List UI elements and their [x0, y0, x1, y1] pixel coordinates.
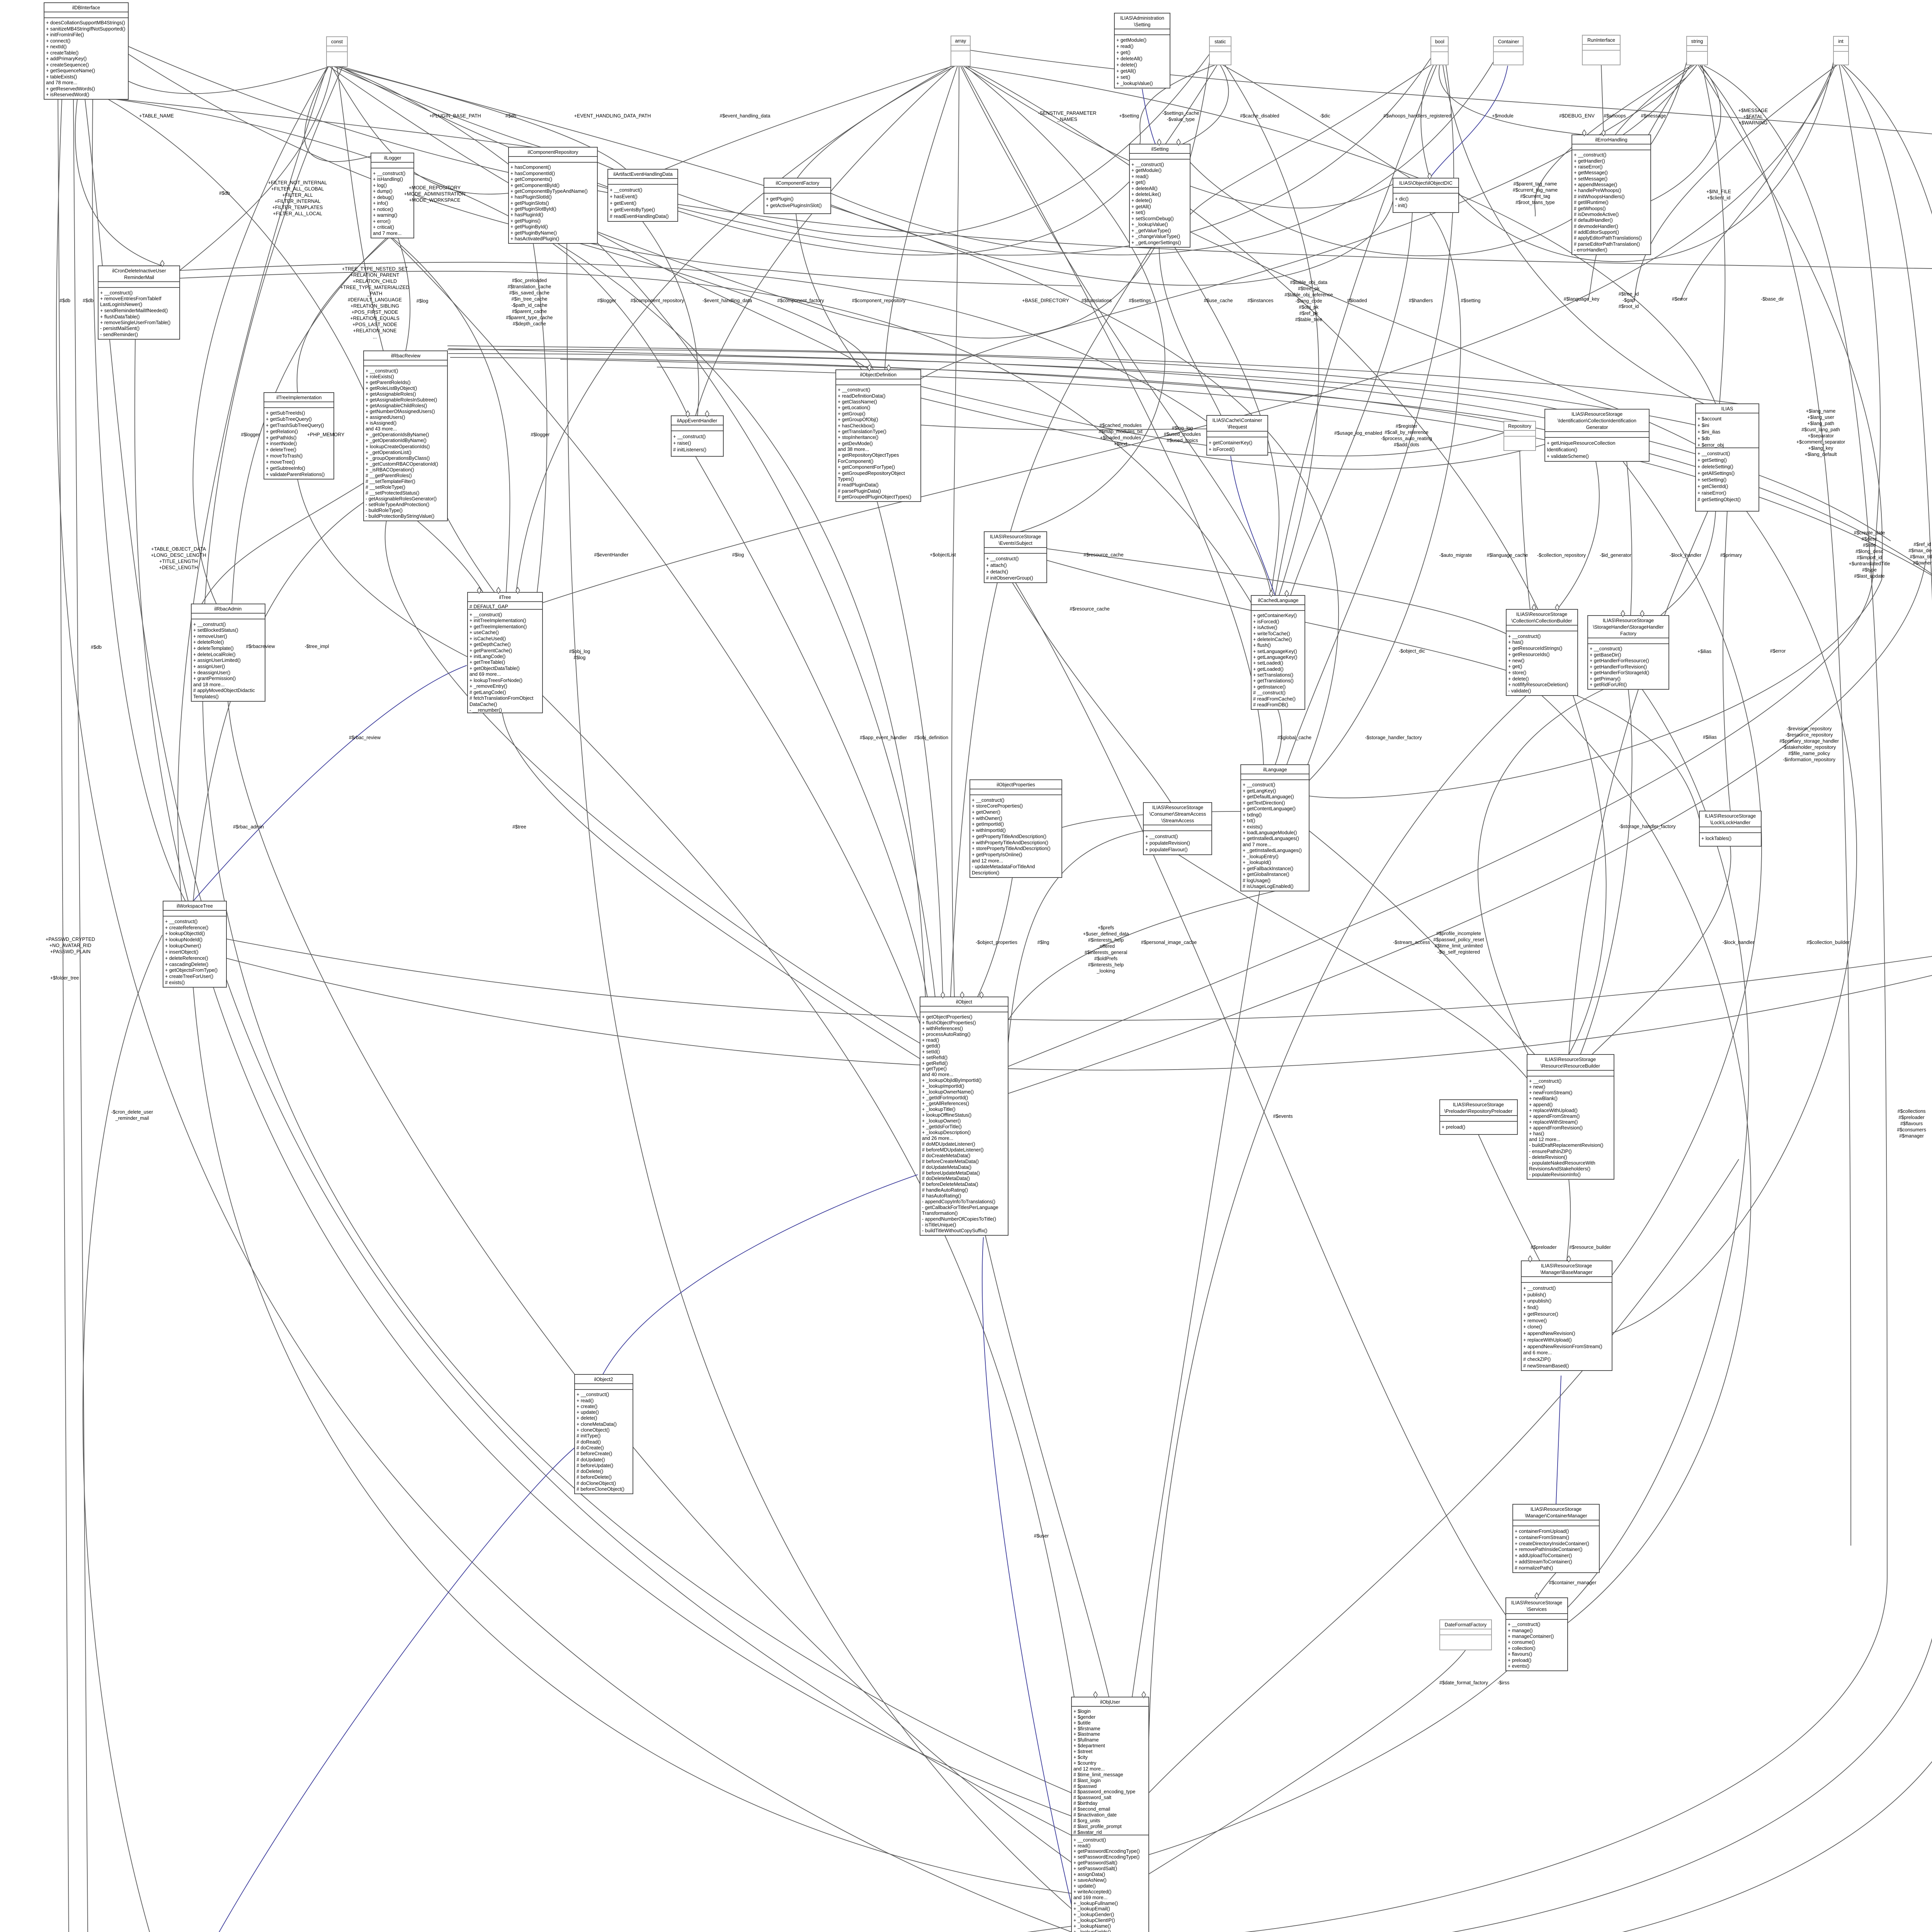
svg-text:+ preload(): + preload(): [1508, 1658, 1531, 1663]
svg-text:+ useCache(): + useCache(): [469, 630, 499, 635]
svg-text:#$app_event_handler: #$app_event_handler: [860, 735, 907, 740]
svg-text:#$loaded: #$loaded: [1347, 298, 1367, 303]
svg-text:+ _lookupId(): + _lookupId(): [1243, 860, 1271, 865]
svg-text:and 12 more...: and 12 more...: [1529, 1137, 1560, 1142]
svg-text:+ delete(): + delete(): [1131, 198, 1152, 203]
svg-text:Types(): Types(): [838, 476, 854, 482]
svg-text:+ __construct(): + __construct(): [1508, 1622, 1540, 1627]
svg-text:#$interests_general: #$interests_general: [1085, 950, 1128, 955]
svg-text:+ getModule(): + getModule(): [1116, 37, 1146, 43]
svg-text:+ getNumberOfAssignedUsers(): + getNumberOfAssignedUsers(): [366, 409, 435, 414]
svg-text:+ dic(): + dic(): [1395, 196, 1408, 202]
svg-text:+ getObjectDataTable(): + getObjectDataTable(): [469, 666, 520, 671]
svg-text:#$error: #$error: [1672, 296, 1688, 302]
class AdminSetting: [1114, 13, 1170, 88]
svg-text:#$logger: #$logger: [531, 432, 549, 437]
svg-text:+NO_AVATAR_RID: +NO_AVATAR_RID: [49, 943, 92, 948]
svg-text:+ getActivePluginsInSlot(): + getActivePluginsInSlot(): [766, 203, 822, 208]
svg-text:ILIAS\ResourceStorage: ILIAS\ResourceStorage: [1705, 813, 1756, 819]
svg-text:+ unpublish(): + unpublish(): [1523, 1298, 1551, 1304]
svg-text:+ _lookupValue(): + _lookupValue(): [1116, 81, 1153, 86]
svg-text:+ deleteTree(): + deleteTree(): [266, 447, 296, 452]
svg-text:#$long_desc: #$long_desc: [1855, 549, 1883, 554]
svg-text:# $inactivation_date: # $inactivation_date: [1073, 1812, 1117, 1818]
wire: [128, 66, 330, 94]
svg-text:# isUsageLogEnabled(): # isUsageLogEnabled(): [1243, 884, 1294, 889]
svg-text:#$consumers: #$consumers: [1897, 1127, 1926, 1133]
svg-text:+ getComponents(): + getComponents(): [510, 177, 552, 182]
svg-text:# doCloneObject(): # doCloneObject(): [577, 1481, 616, 1486]
svg-text:+ containerFromStream(): + containerFromStream(): [1515, 1535, 1569, 1540]
svg-text:#$file_name_policy: #$file_name_policy: [1788, 751, 1830, 756]
svg-text:+ getTreeImplementation(): + getTreeImplementation(): [469, 624, 527, 629]
svg-text:+ warning(): + warning(): [373, 213, 397, 218]
svg-text:+ getRoleListByObject(): + getRoleListByObject(): [366, 386, 417, 391]
class ilRbacReview: [364, 351, 447, 521]
svg-text:# $passwd: # $passwd: [1073, 1784, 1097, 1789]
svg-text:#$log: #$log: [732, 552, 744, 558]
class array: [951, 36, 970, 66]
svg-text:+ $fullname: + $fullname: [1073, 1737, 1099, 1743]
svg-text:+ _getOperationIdByName(): + _getOperationIdByName(): [366, 438, 427, 443]
svg-text:+ getPasswordSalt(): + getPasswordSalt(): [1073, 1860, 1117, 1866]
svg-text:+MODE_WORKSPACE: +MODE_WORKSPACE: [409, 197, 460, 203]
svg-text:+ info(): + info(): [373, 201, 388, 206]
svg-text:-$collection_repository: -$collection_repository: [1537, 553, 1586, 558]
svg-text:#$component_repository: #$component_repository: [852, 298, 906, 303]
svg-text:# getWhoops(): # getWhoops(): [1574, 206, 1606, 211]
svg-text:and 7 more...: and 7 more...: [373, 231, 401, 236]
svg-text:+POS_FIRST_NODE: +POS_FIRST_NODE: [352, 310, 398, 315]
svg-text:+ raise(): + raise(): [673, 440, 691, 446]
svg-text:+ handlePreWhoops(): + handlePreWhoops(): [1574, 188, 1621, 193]
class ilDBInterface: [44, 3, 128, 99]
svg-text:+ read(): + read(): [922, 1037, 939, 1043]
svg-text:-SENSTIVE_PARAMETER: -SENSTIVE_PARAMETER: [1038, 111, 1097, 116]
svg-text:+ events(): + events(): [1508, 1663, 1529, 1669]
svg-text:+RELATION_NONE: +RELATION_NONE: [353, 328, 397, 333]
svg-text:#$language_key: #$language_key: [1564, 296, 1600, 302]
svg-text:# exists(): # exists(): [165, 980, 185, 985]
svg-text:+ __construct(): + __construct(): [366, 368, 398, 374]
svg-text:ilTreeImplementation: ilTreeImplementation: [276, 395, 321, 400]
svg-text:# initType(): # initType(): [577, 1433, 600, 1439]
svg-text:+ debug(): + debug(): [373, 195, 394, 200]
svg-text:+ getLanguageKey(): + getLanguageKey(): [1253, 655, 1297, 660]
class ilSetting: [1129, 144, 1190, 247]
svg-text:+ _lookupTitle(): + _lookupTitle(): [922, 1107, 956, 1112]
svg-text:\Events\Subject: \Events\Subject: [998, 541, 1032, 546]
svg-text:+ removeUser(): + removeUser(): [193, 634, 227, 639]
svg-text:# beforeUpdateMetaData(): # beforeUpdateMetaData(): [922, 1170, 980, 1176]
svg-text:+ error(): + error(): [373, 219, 391, 224]
svg-text:#$language_cache: #$language_cache: [1487, 553, 1528, 558]
svg-text:+ _lookupDescription(): + _lookupDescription(): [922, 1130, 971, 1135]
svg-text:+ __construct(): + __construct(): [165, 919, 197, 924]
svg-text:#$import_id: #$import_id: [1857, 555, 1882, 560]
svg-text:# devmodeHandler(): # devmodeHandler(): [1574, 224, 1618, 229]
svg-text:+ getLocation(): + getLocation(): [838, 405, 870, 410]
svg-text:+ deleteTemplate(): + deleteTemplate(): [193, 646, 234, 651]
svg-text:#$time_limit_unlimited: #$time_limit_unlimited: [1435, 943, 1483, 949]
svg-text:+ appendFromStream(): + appendFromStream(): [1529, 1114, 1580, 1119]
svg-text:+ roleExists(): + roleExists(): [366, 374, 394, 379]
svg-text:and 43 more...: and 43 more...: [366, 426, 397, 432]
svg-text:ilDBInterface: ilDBInterface: [72, 5, 100, 10]
svg-text:+ __construct(): + __construct(): [986, 556, 1019, 561]
svg-text:LastLoginIsNewer(): LastLoginIsNewer(): [100, 302, 142, 307]
svg-text:+ _lookupGender(): + _lookupGender(): [1073, 1912, 1114, 1917]
svg-text:and 38 more...: and 38 more...: [838, 447, 869, 452]
class ilTree: [468, 592, 543, 713]
svg-text:ilObjUser: ilObjUser: [1100, 1699, 1120, 1705]
svg-text:+ flavours(): + flavours(): [1508, 1651, 1532, 1657]
svg-text:#$logger: #$logger: [241, 432, 260, 437]
svg-text:+ newFromStream(): + newFromStream(): [1529, 1090, 1572, 1095]
svg-text:+ getPlugins(): + getPlugins(): [510, 218, 541, 224]
svg-text:-$lock_handler: -$lock_handler: [1723, 940, 1755, 945]
svg-text:#$tree_pk: #$tree_pk: [1298, 286, 1320, 291]
svg-text:ILIAS\ResourceStorage: ILIAS\ResourceStorage: [1541, 1263, 1592, 1269]
svg-text:+DESC_LENGTH: +DESC_LENGTH: [159, 565, 198, 570]
svg-text:+ getType(): + getType(): [922, 1066, 947, 1071]
svg-text:+ _lookupEntry(): + _lookupEntry(): [1243, 854, 1279, 859]
svg-text:+ setPasswordSalt(): + setPasswordSalt(): [1073, 1866, 1117, 1871]
svg-text:+ _lookupImportId(): + _lookupImportId(): [922, 1083, 964, 1089]
svg-text:+ find(): + find(): [1523, 1305, 1539, 1310]
svg-text:+ createTreeForUser(): + createTreeForUser(): [165, 974, 213, 979]
svg-text:+ __construct(): + __construct(): [610, 187, 642, 193]
svg-text:+ getPluginSlotById(): + getPluginSlotById(): [510, 206, 556, 212]
svg-text:-$storage_handler_factory: -$storage_handler_factory: [1619, 824, 1676, 829]
svg-text:+ getContainerKey(): + getContainerKey(): [1209, 440, 1252, 446]
svg-text:+ getPrimary(): + getPrimary(): [1590, 676, 1621, 682]
svg-text:# initObserverGroup(): # initObserverGroup(): [986, 575, 1033, 581]
svg-text:#$parent_cache: #$parent_cache: [512, 309, 547, 314]
svg-text:ILIAS\ResourceStorage: ILIAS\ResourceStorage: [1531, 1507, 1582, 1512]
svg-text:# hasAutoRating(): # hasAutoRating(): [922, 1193, 961, 1199]
svg-text:#$cache_disabled: #$cache_disabled: [1240, 113, 1279, 119]
svg-text:+ getTrashSubTreeQuery(): + getTrashSubTreeQuery(): [266, 423, 324, 428]
svg-text:+ $lastname: + $lastname: [1073, 1731, 1100, 1737]
svg-text:+$prefs: +$prefs: [1098, 925, 1114, 930]
svg-text:# checkZIP(): # checkZIP(): [1523, 1357, 1551, 1362]
svg-text:-$is_self_registered: -$is_self_registered: [1437, 949, 1480, 955]
svg-text:- buildTitleWithoutCopySuffix(: - buildTitleWithoutCopySuffix(): [922, 1228, 987, 1233]
svg-text:+ dump(): + dump(): [373, 189, 393, 194]
svg-text:+ getMessage(): + getMessage(): [1574, 170, 1608, 175]
svg-text:# addEditorSupport(): # addEditorSupport(): [1574, 230, 1619, 235]
svg-text:-$stream_access: -$stream_access: [1393, 940, 1430, 945]
svg-text:+$separator: +$separator: [1808, 433, 1834, 439]
svg-text:-$dic: -$dic: [1320, 113, 1330, 119]
svg-text:#$translations: #$translations: [1082, 298, 1112, 303]
svg-text:+EVENT_HANDLING_DATA_PATH: +EVENT_HANDLING_DATA_PATH: [574, 113, 651, 119]
svg-text:+ lookupOfflineStatus(): + lookupOfflineStatus(): [922, 1112, 971, 1118]
svg-text:#$is_saved_cache: #$is_saved_cache: [509, 290, 549, 296]
svg-text:+ __construct(): + __construct(): [1073, 1837, 1106, 1843]
svg-text:#$add_dots: #$add_dots: [1394, 442, 1419, 447]
svg-text:+ exists(): + exists(): [1243, 824, 1262, 830]
svg-text:#$logger: #$logger: [597, 298, 616, 303]
svg-text:+ lookupNodeId(): + lookupNodeId(): [165, 937, 202, 942]
svg-text:#$manager: #$manager: [1899, 1133, 1924, 1139]
svg-text:+ appendMessage(): + appendMessage(): [1574, 182, 1617, 187]
svg-text:+ lookupTreesForNode(): + lookupTreesForNode(): [469, 678, 522, 683]
svg-text:+ __construct(): + __construct(): [1145, 834, 1178, 839]
svg-text:# $password_encoding_type: # $password_encoding_type: [1073, 1789, 1135, 1794]
svg-text:# doCreate(): # doCreate(): [577, 1445, 604, 1451]
svg-text:+ createReference(): + createReference(): [165, 925, 208, 930]
svg-text:+$comment_separator: +$comment_separator: [1796, 439, 1845, 445]
svg-text:+ delete(): + delete(): [577, 1415, 597, 1421]
svg-text:_looking: _looking: [1097, 968, 1115, 974]
svg-text:and 78 more...: and 78 more...: [46, 80, 77, 85]
class Subject: [984, 532, 1047, 583]
svg-text:ilCachedLanguage: ilCachedLanguage: [1258, 598, 1298, 603]
svg-text:+ initFromIniFile(): + initFromIniFile(): [46, 32, 84, 37]
svg-text:#$current_tag_name: #$current_tag_name: [1513, 187, 1558, 193]
svg-text:+ populateRevision(): + populateRevision(): [1145, 840, 1190, 846]
svg-text:+ moveTree(): + moveTree(): [266, 459, 295, 465]
svg-text:+ getPluginById(): + getPluginById(): [510, 224, 548, 230]
svg-text:+ grantPermission(): + grantPermission(): [193, 676, 236, 681]
svg-text:+ _getInstalledLanguages(): + _getInstalledLanguages(): [1243, 848, 1302, 853]
svg-text:+ getContentLanguage(): + getContentLanguage(): [1243, 806, 1296, 811]
svg-text:+ getDepthCache(): + getDepthCache(): [469, 642, 511, 647]
svg-text:- persistMailSent(): - persistMailSent(): [100, 326, 139, 331]
node anchors: [160, 130, 1644, 1932]
svg-text:+ _groupOperationsByClass(): + _groupOperationsByClass(): [366, 456, 430, 461]
svg-text:+ getTextDirection(): + getTextDirection(): [1243, 800, 1285, 806]
svg-text:# handleAutoRating(): # handleAutoRating(): [922, 1187, 968, 1193]
svg-text:+$folder_tree: +$folder_tree: [50, 975, 79, 981]
svg-text:ilErrorHandling: ilErrorHandling: [1595, 137, 1627, 143]
class DateFormatFactory: [1440, 1620, 1492, 1650]
svg-text:#$obj_definition: #$obj_definition: [914, 735, 948, 740]
svg-text:+TABLE_OBJECT_DATA: +TABLE_OBJECT_DATA: [151, 546, 206, 552]
svg-text:-$stakeholder_repository: -$stakeholder_repository: [1782, 745, 1836, 750]
svg-text:#$obj_pk: #$obj_pk: [1299, 304, 1319, 310]
svg-text:+ hasActivatedPlugin(): + hasActivatedPlugin(): [510, 236, 559, 241]
svg-text:+ setLoaded(): + setLoaded(): [1253, 660, 1283, 666]
class ilObject: [920, 997, 1008, 1235]
svg-text:#$root_trans_type: #$root_trans_type: [1515, 200, 1555, 205]
svg-text:#$resource_builder: #$resource_builder: [1569, 1245, 1611, 1250]
svg-text:+$lang_path: +$lang_path: [1807, 421, 1834, 426]
svg-text:+ insertObject(): + insertObject(): [165, 949, 198, 955]
svg-text:-$process_auto_reating: -$process_auto_reating: [1381, 436, 1432, 441]
svg-text:-$information_repository: -$information_repository: [1783, 757, 1835, 762]
svg-text:- appendCopyInfoToTranslations: - appendCopyInfoToTranslations(): [922, 1199, 995, 1204]
svg-text:+ getPluginSlots(): + getPluginSlots(): [510, 201, 549, 206]
svg-text:#$root_id: #$root_id: [1619, 304, 1639, 309]
class ilLogger: [371, 153, 414, 238]
svg-text:+ log(): + log(): [373, 183, 387, 188]
svg-text:# __setRoleType(): # __setRoleType(): [366, 485, 405, 490]
svg-text:# getLangCode(): # getLangCode(): [469, 690, 506, 695]
svg-text:_NAMES: _NAMES: [1057, 117, 1077, 122]
svg-text:+ addPrimaryKey(): + addPrimaryKey(): [46, 56, 87, 61]
svg-text:+ getParentCache(): + getParentCache(): [469, 648, 512, 653]
svg-text:ilLogger: ilLogger: [384, 155, 401, 161]
svg-text:+ __construct(): + __construct(): [373, 171, 405, 176]
svg-text:#$rbac_admin: #$rbac_admin: [233, 824, 264, 830]
svg-text:and 6 more...: and 6 more...: [1523, 1350, 1552, 1355]
svg-text:#$used_modules: #$used_modules: [1164, 432, 1201, 437]
svg-text:- buildProtectionByStringValue: - buildProtectionByStringValue(): [366, 514, 434, 519]
svg-text:\Manager\ContainerManager: \Manager\ContainerManager: [1525, 1513, 1587, 1519]
svg-text:- populateNakedResourceWith: - populateNakedResourceWith: [1529, 1160, 1595, 1166]
svg-text:+ _isRBACOperation(): + _isRBACOperation(): [366, 467, 414, 473]
svg-text:+ getRidForURI(): + getRidForURI(): [1590, 682, 1627, 687]
svg-text:+$untranslatedTitle: +$untranslatedTitle: [1849, 561, 1890, 566]
svg-text:+ getId(): + getId(): [922, 1043, 940, 1049]
svg-text:+ getSetting(): + getSetting(): [1697, 457, 1727, 463]
class ilAppEventHandler: [671, 416, 723, 456]
svg-text:+$WARNING: +$WARNING: [1739, 120, 1768, 126]
svg-text:Generator: Generator: [1586, 425, 1608, 430]
svg-text:#$used_topics: #$used_topics: [1167, 438, 1198, 443]
svg-text:+ _changeValueType(): + _changeValueType(): [1131, 234, 1180, 239]
class const: [327, 37, 347, 66]
svg-text:#$max_desc: #$max_desc: [1908, 548, 1932, 553]
svg-text:+ getInstalledLanguages(): + getInstalledLanguages(): [1243, 836, 1299, 841]
svg-text:+ _lookupClientIP(): + _lookupClientIP(): [1073, 1918, 1115, 1923]
svg-text:+ getPropertyIsOnline(): + getPropertyIsOnline(): [972, 852, 1022, 857]
svg-text:+RELATION_PARENT: +RELATION_PARENT: [350, 272, 400, 278]
svg-text:+ critical(): + critical(): [373, 224, 394, 230]
svg-text:ILIAS\Administration: ILIAS\Administration: [1120, 15, 1164, 21]
svg-text:+ getComponentByTypeAndName(): + getComponentByTypeAndName(): [510, 189, 588, 194]
svg-text:#$primary_storage_handler: #$primary_storage_handler: [1779, 738, 1839, 744]
svg-text:+$lang_key: +$lang_key: [1808, 446, 1833, 451]
class ilArtifactEventHandlingData: [608, 169, 678, 221]
svg-text:#$db: #$db: [60, 298, 70, 303]
svg-text:#$rbacreview: #$rbacreview: [246, 644, 276, 649]
svg-text:#$usage_log_enabled: #$usage_log_enabled: [1334, 430, 1382, 436]
svg-text:+ deleteLike(): + deleteLike(): [1131, 192, 1161, 197]
svg-text:+ read(): + read(): [1131, 174, 1148, 179]
svg-text:#$events: #$events: [1273, 1114, 1293, 1119]
svg-text:ILIAS\ResourceStorage: ILIAS\ResourceStorage: [1603, 618, 1654, 623]
svg-text:+ setScormDebug(): + setScormDebug(): [1131, 216, 1174, 221]
svg-text:-$lock_handler: -$lock_handler: [1670, 553, 1702, 558]
svg-text:+ _lookupOwner(): + _lookupOwner(): [922, 1118, 961, 1124]
svg-text:+ update(): + update(): [1073, 1883, 1096, 1889]
svg-text:+ getInstance(): + getInstance(): [1253, 684, 1286, 690]
svg-text:ilComponentRepository: ilComponentRepository: [528, 150, 579, 155]
svg-text:- __renumber(): - __renumber(): [469, 707, 502, 713]
svg-text:- buildRoleType(): - buildRoleType(): [366, 508, 403, 513]
svg-text:- sendReminder(): - sendReminder(): [100, 332, 138, 337]
svg-text:+TREE_TYPE_MATERIALIZED: +TREE_TYPE_MATERIALIZED: [340, 285, 410, 290]
class ilLanguage: [1241, 765, 1309, 891]
svg-text:+ cloneObject(): + cloneObject(): [577, 1427, 610, 1433]
svg-text:# normalizePath(): # normalizePath(): [1515, 1565, 1553, 1571]
svg-text:+ __construct(): + __construct(): [193, 622, 226, 627]
svg-text:+ insertNode(): + insertNode(): [266, 441, 297, 446]
svg-text:+ initTreeImplementation(): + initTreeImplementation(): [469, 618, 526, 623]
class ilErrorHandling: [1572, 135, 1651, 255]
svg-text:+ getComponentForType(): + getComponentForType(): [838, 464, 895, 470]
svg-text:+ $city: + $city: [1073, 1755, 1088, 1760]
svg-text:ilSetting: ilSetting: [1151, 146, 1169, 152]
svg-text:+ getRelation(): + getRelation(): [266, 429, 298, 434]
svg-text:+ deleteReference(): + deleteReference(): [165, 956, 208, 961]
svg-text:+ delete(): + delete(): [1508, 676, 1529, 682]
svg-text:+ getEvent(): + getEvent(): [610, 201, 636, 206]
svg-text:#$tree: #$tree: [512, 824, 526, 830]
svg-text:array: array: [955, 38, 966, 44]
svg-text:+ __construct(): + __construct(): [1508, 634, 1541, 639]
svg-text:+ getParentRoleIds(): + getParentRoleIds(): [366, 380, 411, 385]
svg-text:+ getHandler(): + getHandler(): [1574, 158, 1605, 164]
svg-text:#$interests_help: #$interests_help: [1088, 937, 1124, 943]
svg-text:+ removeSingleUserFromTable(): + removeSingleUserFromTable(): [100, 320, 170, 325]
svg-text:+ hasPluginSlotId(): + hasPluginSlotId(): [510, 194, 552, 200]
svg-text:-$id_generator: -$id_generator: [1600, 553, 1631, 558]
svg-text:#$log: #$log: [417, 298, 429, 304]
svg-text:+ consume(): + consume(): [1508, 1639, 1535, 1645]
svg-text:+ get(): + get(): [1116, 50, 1131, 55]
svg-text:+ $db: + $db: [1697, 436, 1710, 441]
svg-text:+ __construct(): + __construct(): [1243, 782, 1275, 787]
svg-text:DateFormatFactory: DateFormatFactory: [1445, 1622, 1487, 1628]
class ResourceBuilder: [1527, 1054, 1614, 1179]
svg-text:_offered: _offered: [1097, 944, 1115, 949]
svg-text:#$map_modules_txt: #$map_modules_txt: [1099, 429, 1143, 434]
svg-text:#DEFAULT_LANGUAGE: #DEFAULT_LANGUAGE: [348, 297, 402, 303]
svg-text:#$global_cache: #$global_cache: [1277, 735, 1311, 740]
svg-text:RevisionsAndStakeholders(): RevisionsAndStakeholders(): [1529, 1166, 1590, 1172]
svg-text:and 7 more...: and 7 more...: [1243, 842, 1271, 847]
svg-text:+ stopInheritance(): + stopInheritance(): [838, 435, 878, 440]
svg-text:# doRead(): # doRead(): [577, 1439, 601, 1445]
class ilCronDelete: [98, 266, 180, 339]
svg-text:+ getModule(): + getModule(): [1131, 168, 1162, 173]
svg-text:- populateRevisionInfo(): - populateRevisionInfo(): [1529, 1172, 1581, 1177]
svg-text:+ getTreeTable(): + getTreeTable(): [469, 660, 505, 665]
svg-text:+ _getAllReferences(): + _getAllReferences(): [922, 1101, 969, 1106]
svg-text:+ assignUser(): + assignUser(): [193, 664, 225, 669]
svg-text:ReminderMail: ReminderMail: [124, 275, 154, 280]
svg-text:#$DEBUG_ENV: #$DEBUG_ENV: [1559, 113, 1595, 119]
svg-text:#$db: #$db: [91, 645, 102, 650]
svg-text:+ getResource(): + getResource(): [1523, 1311, 1558, 1317]
svg-text:+ getResourceIds(): + getResourceIds(): [1508, 652, 1549, 657]
svg-text:Templates(): Templates(): [193, 694, 219, 699]
svg-text:+ getSubtreeInfo(): + getSubtreeInfo(): [266, 466, 305, 471]
svg-text:- errorHandler(): - errorHandler(): [1574, 247, 1607, 253]
svg-text:+ getHandlerForResource(): + getHandlerForResource(): [1590, 658, 1649, 663]
svg-text:+ getDefaultLanguage(): + getDefaultLanguage(): [1243, 794, 1294, 799]
svg-text:- ensurePathInZIP(): - ensurePathInZIP(): [1529, 1149, 1572, 1154]
svg-text:+ setPasswordEncodingType(): + setPasswordEncodingType(): [1073, 1854, 1139, 1860]
svg-text:# __construct(): # __construct(): [1253, 690, 1286, 696]
svg-text:+$INI_FILE: +$INI_FILE: [1706, 189, 1731, 194]
svg-text:+RELATION_CHILD: +RELATION_CHILD: [353, 279, 397, 284]
svg-text:-$base_dir: -$base_dir: [1761, 296, 1784, 302]
svg-text:# readEventHandlingData(): # readEventHandlingData(): [610, 214, 669, 219]
svg-text:+ hasPluginId(): + hasPluginId(): [510, 212, 543, 218]
svg-text:+ set(): + set(): [1116, 75, 1130, 80]
svg-text:-$cron_delete_user: -$cron_delete_user: [111, 1109, 153, 1115]
class bool: [1431, 37, 1448, 65]
svg-text:+ getGroupedRepositoryObject: + getGroupedRepositoryObject: [838, 471, 905, 476]
svg-text:#$register: #$register: [1396, 423, 1417, 429]
svg-text:-$path_id_cache: -$path_id_cache: [511, 303, 547, 308]
